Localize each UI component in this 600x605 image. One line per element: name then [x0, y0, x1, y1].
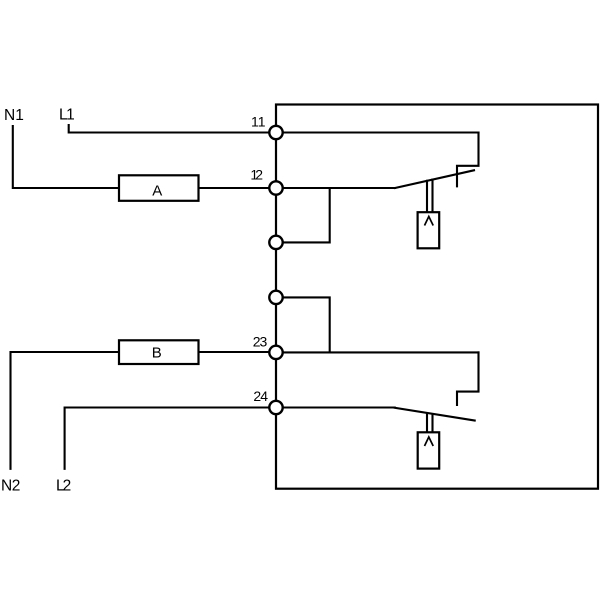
actuator B link lines [427, 413, 433, 432]
jumper terminal 4 to terminal 23 wire [276, 297, 330, 352]
terminal node 3 [269, 236, 282, 249]
svg-text:N1: N1 [4, 107, 24, 124]
terminal node 4 [269, 291, 282, 304]
wire terminal 11 to contact K1 [276, 131, 479, 133]
wire N2 to coil B [11, 352, 120, 469]
coil B box [119, 340, 199, 364]
svg-text:11: 11 [251, 114, 266, 130]
svg-text:L2: L2 [56, 477, 71, 494]
terminal 12 [269, 181, 282, 194]
wire terminal 23 to contact K2 [276, 351, 479, 353]
svg-text:23: 23 [253, 333, 268, 349]
wire terminal 12 to contact K1 blade [276, 187, 395, 189]
actuator A caret [425, 217, 434, 226]
contact K1 fixed lead with tick [457, 133, 479, 187]
actuator B caret [425, 437, 434, 446]
jumper terminal 12 wire to terminal 3 [276, 188, 330, 242]
wire L1 to terminal 11 [69, 125, 276, 133]
svg-text:24: 24 [253, 388, 268, 404]
wire coil A to terminal 12 [199, 187, 277, 189]
svg-text:N2: N2 [1, 477, 20, 494]
actuator A link lines [427, 180, 433, 213]
svg-text:A: A [152, 182, 162, 199]
contact K2 blade [395, 408, 475, 421]
wire coil B to terminal 23 [199, 351, 277, 353]
wire N1 to coil A [13, 126, 119, 188]
actuator B box [418, 432, 440, 468]
wire terminal 24 to contact K2 blade [276, 406, 395, 408]
terminal 23 [269, 346, 282, 359]
contact K2 fixed lead with tick [457, 352, 479, 405]
wire L2 to terminal 24 [65, 408, 276, 469]
coil A box [119, 175, 199, 201]
terminal 24 [269, 401, 282, 414]
svg-text:L1: L1 [59, 107, 74, 124]
terminal 11 [269, 126, 282, 139]
svg-text:B: B [152, 345, 162, 362]
relay body outline [276, 105, 598, 489]
actuator A box [418, 212, 440, 248]
svg-text:12: 12 [250, 166, 263, 182]
contact K1 blade [395, 170, 474, 188]
